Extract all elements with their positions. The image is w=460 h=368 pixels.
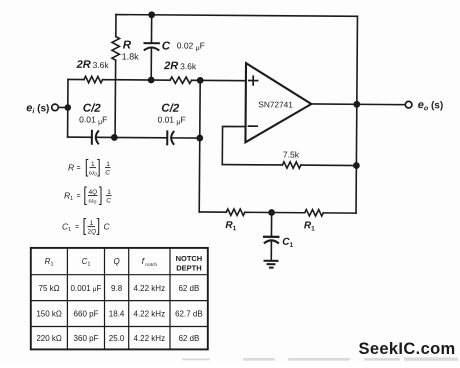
wire middle vertical from top T path down to R1 path [198,80,201,212]
svg-text:7.5k: 7.5k [283,149,300,159]
svg-text:360 pF: 360 pF [74,334,99,343]
wire input stub [58,106,67,108]
svg-text:2Q: 2Q [88,229,97,236]
wire bottom T path middle segment [96,136,167,139]
node dot 7.5k / right vertical [353,162,360,169]
node dot output / right vertical [353,101,360,108]
svg-text:3.6k: 3.6k [180,61,197,71]
svg-text:SN72741: SN72741 [258,99,293,109]
wire bottom T path left segment [68,136,92,138]
svg-text:f notch: f notch [142,256,158,268]
wire R1 path right segment [323,212,356,214]
resistor R1 right zigzag [305,210,324,217]
resistor 2R 3.6k left zigzag [84,76,103,83]
resistor 7.5k zigzag [282,162,301,169]
svg-text:ω0: ω0 [89,170,97,178]
wire C branch top lead [150,15,152,43]
wire top T path middle segment [102,79,169,81]
node dot top T path / middle vertical [197,77,204,84]
wire left input vertical [67,79,69,137]
wire R1 path middle segment [245,211,305,213]
svg-text:=: = [77,193,81,200]
svg-text:62 dB: 62 dB [178,284,199,293]
svg-text:Q: Q [113,257,119,266]
svg-text:2R: 2R [76,59,91,71]
resistor R1 left zigzag [226,209,245,216]
terminal input circle [52,104,59,111]
svg-text:SeekIC.com: SeekIC.com [359,340,456,358]
wire top rail [116,15,357,17]
svg-text:1: 1 [91,161,95,168]
svg-text:18.4: 18.4 [109,310,125,319]
svg-text:25.0: 25.0 [109,334,125,343]
table row 2 [36,310,202,319]
svg-text:4.22 kHz: 4.22 kHz [134,284,166,293]
op-amp plus sign [249,76,258,85]
svg-text:9.8: 9.8 [111,284,123,293]
capacitor C/2 left plates [92,131,98,144]
svg-text:NOTCH: NOTCH [176,254,203,263]
svg-text:0.001 μF: 0.001 μF [71,284,102,293]
node dot bottom T path / R branch [111,134,118,141]
node dot top T path / C bottom [148,77,155,84]
svg-text:ω0: ω0 [89,198,97,206]
wire R branch top lead [115,15,117,37]
formula C1 = [1/2Q] C [62,219,111,236]
svg-text:C: C [105,170,110,177]
svg-text:R1: R1 [64,191,73,203]
svg-text:0.02 μF: 0.02 μF [177,40,205,52]
wire 7.5k feedback right segment [301,164,356,166]
capacitor C plates [144,43,158,50]
formula R = [1/w0] 1/C [68,160,111,178]
svg-text:=: = [77,165,81,172]
op-amp U1 triangle [245,63,311,143]
svg-text:R: R [68,163,74,173]
svg-text:1: 1 [90,220,94,227]
wire top T path left segment [68,78,84,80]
wire C1 to ground [270,241,272,261]
wire R branch bottom lead crossing top T path [114,60,117,137]
wire op-amp minus input [222,126,245,164]
wire C1 branch top lead [270,212,272,235]
faint scan artifact streaks bottom [182,358,458,361]
formula R1 = [4Q/w0] 1/C [64,187,112,206]
svg-text:1: 1 [107,189,111,196]
svg-text:150 kΩ: 150 kΩ [36,310,62,319]
table row 3 [36,334,199,343]
svg-text:R1: R1 [304,220,315,232]
node dot bottom T path / middle vertical [196,135,203,142]
capacitor C1 plates [264,237,278,243]
wire C branch bottom lead [150,47,152,80]
svg-text:C/2: C/2 [83,103,102,115]
node dot top rail / C branch [148,11,155,18]
svg-text:C1: C1 [82,257,91,268]
wire right vertical from top rail down to R1 feedback path [356,16,357,213]
svg-text:C1: C1 [62,222,71,234]
wire bottom T path right segment [172,137,200,139]
svg-text:660 pF: 660 pF [74,310,99,319]
svg-text:3.6k: 3.6k [93,60,110,70]
table row 1 [39,284,200,293]
op-amp minus sign [248,125,257,127]
svg-text:1.8k: 1.8k [122,51,140,61]
svg-text:C1: C1 [282,237,293,249]
terminal output circle [405,101,412,108]
wire top T path to op-amp plus input [191,79,245,81]
svg-text:eo (s): eo (s) [418,99,444,112]
capacitor C/2 right plates [167,131,173,144]
svg-text:4.22 kHz: 4.22 kHz [134,334,166,343]
node dot input [64,104,71,111]
svg-text:62.7 dB: 62.7 dB [175,310,203,319]
svg-text:R: R [123,40,132,52]
svg-text:C: C [104,222,111,232]
svg-text:1: 1 [106,161,110,168]
svg-text:=: = [75,224,79,231]
ground symbol [265,261,278,268]
svg-text:C: C [106,198,111,205]
table parameter grid [31,248,208,350]
svg-text:62 dB: 62 dB [178,334,199,343]
resistor 2R 3.6k right zigzag [170,77,192,84]
wire 7.5k feedback left segment [222,164,282,166]
svg-text:R1: R1 [225,220,236,232]
svg-text:R1: R1 [45,257,54,268]
svg-text:75 kΩ: 75 kΩ [39,284,60,293]
svg-text:220 kΩ: 220 kΩ [36,334,62,343]
resistor R 1.8k vertical zigzag [112,37,120,61]
wire R1 path left lead [199,211,226,213]
svg-text:DEPTH: DEPTH [176,264,201,273]
svg-text:0.01 μF: 0.01 μF [79,114,107,126]
svg-text:C: C [162,40,171,52]
svg-text:C/2: C/2 [161,103,180,115]
wire op-amp output [311,103,405,106]
svg-text:ei (s): ei (s) [26,102,49,115]
node dot R1 path / C1 branch [268,209,275,216]
svg-text:4.22 kHz: 4.22 kHz [134,310,166,319]
svg-text:4Q: 4Q [89,189,98,196]
svg-text:2R: 2R [163,60,178,72]
svg-text:0.01 μF: 0.01 μF [157,114,185,126]
